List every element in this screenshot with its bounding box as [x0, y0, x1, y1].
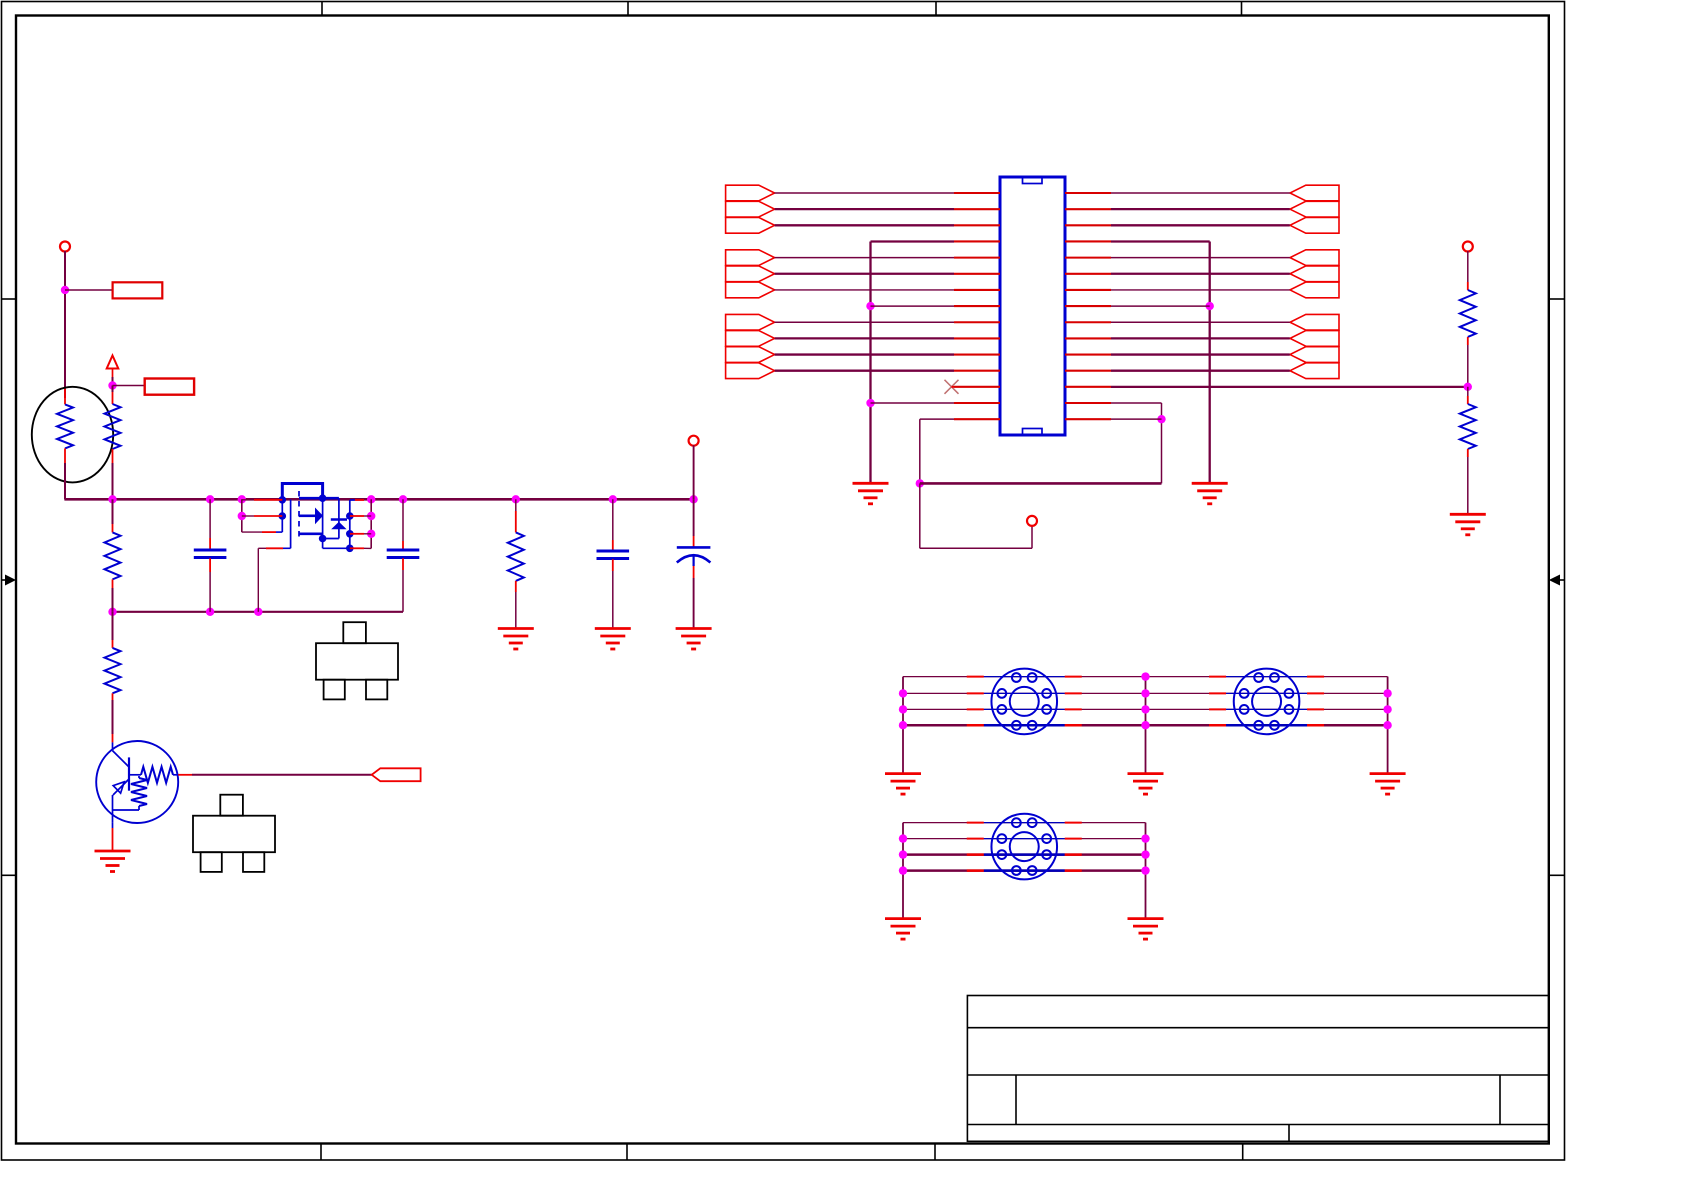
wire: [241, 499, 243, 532]
mosfet node: [279, 496, 287, 504]
Q1 pin: [355, 499, 364, 501]
wire: [903, 853, 1146, 856]
footprint SOT-23 U3: [316, 622, 398, 699]
R3 lead: [112, 640, 114, 648]
U1 right pin 28: [1065, 386, 1111, 388]
right connector flag row 3: [1290, 217, 1339, 233]
wire to ground: [902, 823, 904, 919]
lower bus junction: [206, 608, 214, 616]
ground: [1128, 919, 1164, 940]
R4 lead: [515, 581, 517, 592]
junction: [1383, 689, 1391, 697]
right connector flag row 2: [1290, 201, 1339, 217]
wire: [1111, 192, 1290, 194]
pin: [967, 838, 984, 840]
wire: [1111, 257, 1290, 259]
R2 lead: [112, 579, 114, 588]
right connector flag row 1: [1290, 185, 1339, 201]
terminal P2: [689, 436, 699, 446]
right connector flag row 5: [1290, 250, 1339, 266]
junction: [1141, 672, 1149, 680]
connector J circular footprint: [1234, 669, 1300, 735]
C2 lead: [402, 541, 404, 550]
left connector flag row 5: [726, 250, 775, 266]
bus junction: [206, 495, 214, 503]
wire: [242, 499, 254, 501]
wire: [903, 692, 1388, 694]
pin: [967, 724, 984, 727]
U1 right pin 18: [1065, 224, 1111, 226]
zone tick bottom: [934, 1144, 936, 1161]
right connector flag row 7: [1290, 282, 1339, 298]
pin: [1065, 676, 1082, 678]
right connector flag row 6: [1290, 266, 1339, 282]
wire blue segment: [984, 869, 1065, 872]
zone tick bottom: [1242, 1144, 1244, 1161]
pin: [1065, 822, 1082, 824]
zone tick top: [627, 2, 629, 16]
connector J circular footprint: [991, 669, 1057, 735]
Q2 collector inside: [112, 742, 114, 750]
wire: [1111, 370, 1290, 372]
left connector flag row 1: [726, 185, 775, 201]
wire: [775, 208, 954, 210]
U1 right pin 27: [1065, 370, 1111, 372]
junction: [1141, 705, 1149, 713]
wire row8 left: [871, 305, 955, 307]
wire: [903, 869, 1146, 872]
wire: [903, 822, 1146, 824]
pin: [1307, 692, 1324, 694]
wire: [1111, 321, 1290, 323]
wire: [903, 838, 1146, 840]
C4 lead: [693, 536, 695, 547]
wire row13 to divider: [1111, 386, 1468, 388]
left connector flag row 3: [726, 217, 775, 233]
R6 lead: [1467, 449, 1469, 457]
U1 right pin 24: [1065, 321, 1111, 323]
right edge zone arrow: [1556, 579, 1564, 581]
C2 lead: [402, 558, 404, 570]
R5 lead: [1467, 282, 1469, 290]
left connector flag row 7: [726, 282, 775, 298]
terminal P4: [1463, 242, 1473, 252]
U1 right pin 22: [1065, 289, 1111, 291]
junction: [61, 286, 69, 294]
wire: [775, 337, 954, 339]
U1 right pin 30: [1065, 418, 1111, 420]
mosfet node: [346, 512, 354, 520]
pin: [967, 708, 984, 710]
U1 left pin 13: [954, 386, 1000, 388]
U1 left pin 2: [954, 208, 1000, 210]
wire: [1161, 403, 1163, 483]
U1 left pin 4: [954, 240, 1000, 242]
resistor RT lead: [64, 388, 66, 404]
bus junction: [367, 495, 375, 503]
R1 lead: [112, 449, 114, 463]
left connector flag row 11: [726, 347, 775, 363]
wire: [402, 499, 404, 541]
wire to flag: [192, 774, 372, 776]
wire: [775, 289, 954, 291]
mosfet node: [319, 535, 327, 543]
left GND bus: [869, 241, 871, 483]
U1 left pin 10: [954, 337, 1000, 339]
U1 right pin 17: [1065, 208, 1111, 210]
junction: [238, 512, 246, 520]
wire: [903, 724, 1388, 727]
wire row15 right: [1111, 418, 1162, 420]
lower bus junction: [108, 608, 116, 616]
wire: [402, 570, 404, 612]
wire down to bus: [64, 463, 66, 499]
bus junction: [512, 495, 520, 503]
pin: [1065, 724, 1082, 727]
lower bus junction: [254, 608, 262, 616]
wire bottom loop: [920, 482, 1162, 485]
wire: [775, 321, 954, 323]
U1 left pin 15: [954, 418, 1000, 420]
Q1 gate pin: [266, 547, 283, 549]
C1 lead: [209, 538, 211, 550]
R3 lead: [112, 693, 114, 700]
connector flag CTRL: [372, 768, 421, 781]
ground: [853, 483, 889, 504]
left connector flag row 12: [726, 363, 775, 379]
thermistor body circle: [32, 387, 113, 483]
footprint SOT-23 U4: [193, 795, 275, 872]
R6 lead: [1467, 396, 1469, 404]
transistor Q2: [96, 741, 178, 823]
wire: [1467, 345, 1469, 387]
wire: [209, 572, 211, 612]
wire to ground: [1145, 823, 1147, 919]
left edge zone arrow: [2, 579, 10, 581]
wire blue segment: [1226, 708, 1307, 710]
wire blue segment: [984, 724, 1065, 727]
wire: [775, 273, 954, 275]
wire: [1111, 337, 1290, 339]
Q2 base resistor zigzag: [141, 767, 173, 783]
zone tick left: [2, 298, 17, 300]
junction: [1157, 415, 1165, 423]
U1 right pin 26: [1065, 353, 1111, 355]
wire: [775, 353, 954, 355]
wire: [515, 499, 517, 511]
resistor R3 zigzag: [105, 648, 121, 693]
wire: [612, 499, 614, 540]
U1 left pin 5: [954, 257, 1000, 259]
junction: [1464, 383, 1472, 391]
wire row15 left: [920, 418, 954, 420]
Q1 pin: [350, 533, 364, 535]
zone tick left: [2, 874, 17, 876]
wire blue segment: [984, 676, 1065, 678]
pin: [1065, 692, 1082, 694]
pin: [967, 822, 984, 824]
left connector flag row 6: [726, 266, 775, 282]
net label box NL1: [113, 282, 163, 298]
U1 left pin 9: [954, 321, 1000, 323]
wire row14 left: [871, 402, 955, 404]
capacitor C4 polarized: [677, 546, 711, 549]
resistor R1 zigzag: [105, 404, 121, 449]
terminal P1: [60, 242, 70, 252]
wire: [1111, 208, 1290, 210]
wire: [775, 370, 954, 372]
pin: [967, 692, 984, 694]
wire to bus: [112, 463, 114, 499]
mosfet node: [346, 545, 354, 553]
pin: [1307, 676, 1324, 678]
U1 left pin 7: [954, 289, 1000, 291]
Q2 emitter pin: [112, 828, 114, 851]
ground: [885, 919, 921, 940]
resistor RT lead: [64, 448, 66, 466]
U1 left pin 11: [954, 353, 1000, 355]
R1 lead: [112, 392, 114, 404]
U1 right pin 29: [1065, 402, 1111, 404]
wire to ground: [1387, 677, 1389, 774]
wire: [920, 547, 1032, 549]
thermistor RT zigzag: [57, 404, 73, 448]
capacitor C3: [597, 551, 630, 559]
wire to label: [113, 385, 145, 387]
wire: [112, 700, 114, 734]
ground: [1192, 483, 1228, 504]
power stem: [112, 368, 114, 377]
junction: [1141, 850, 1149, 858]
junction: [1141, 866, 1149, 874]
bus junction: [238, 495, 246, 503]
left connector flag row 10: [726, 331, 775, 347]
ground: [1450, 514, 1486, 535]
ground: [95, 851, 131, 872]
pin: [1307, 724, 1324, 727]
junction: [367, 530, 375, 538]
junction: [899, 705, 907, 713]
left connector flag row 9: [726, 314, 775, 330]
wire to ground: [902, 677, 904, 774]
pin: [967, 853, 984, 856]
ground: [676, 629, 712, 650]
wire: [1111, 289, 1290, 291]
C1 lead: [209, 558, 211, 572]
terminal P3: [1027, 516, 1037, 526]
mosfet node: [346, 530, 354, 538]
Q1 pin: [350, 515, 364, 517]
junction: [899, 850, 907, 858]
lower bus: [113, 611, 404, 613]
wire: [1111, 224, 1290, 226]
U1 left pin 12: [954, 370, 1000, 372]
wire blue segment: [984, 853, 1065, 856]
bus junction: [689, 495, 697, 503]
resistor R4 zigzag: [508, 532, 524, 581]
wire: [775, 257, 954, 259]
junction: [899, 721, 907, 729]
zone tick top: [935, 2, 937, 16]
wire: [64, 294, 66, 398]
right connector flag row 11: [1290, 347, 1339, 363]
junction: [367, 512, 375, 520]
pin: [1209, 724, 1226, 727]
pin: [967, 676, 984, 678]
zone tick right: [1549, 874, 1565, 876]
junction: [899, 866, 907, 874]
junction: [1383, 721, 1391, 729]
Q1 pin: [254, 515, 282, 517]
mosfet Q1: [282, 484, 355, 549]
junction: [1383, 705, 1391, 713]
U1 left pin 3: [954, 224, 1000, 226]
right connector flag row 10: [1290, 331, 1339, 347]
wire gate to lower bus: [257, 548, 259, 612]
resistor R6 zigzag: [1460, 404, 1476, 449]
ground: [498, 629, 534, 650]
wire to label: [65, 289, 113, 291]
power port arrow VCC: [107, 356, 119, 369]
U1 right pin 23: [1065, 305, 1111, 307]
wire: [258, 547, 266, 549]
wire blue segment: [1226, 692, 1307, 694]
wire: [919, 419, 921, 483]
R2 lead: [112, 524, 114, 532]
zone tick bottom: [626, 1144, 628, 1161]
wire: [112, 612, 114, 640]
U1 right pin 20: [1065, 257, 1111, 259]
capacitor C2: [387, 550, 420, 558]
wire: [209, 499, 211, 538]
capacitor C1: [194, 550, 227, 558]
transistor collector pin: [112, 734, 114, 742]
connector J circular footprint: [991, 814, 1057, 880]
wire: [903, 676, 1388, 678]
wire: [612, 571, 614, 629]
pin: [1065, 708, 1082, 710]
gate wire: [283, 547, 291, 549]
zone tick right: [1549, 298, 1565, 300]
wire blue segment: [984, 822, 1065, 824]
junction: [866, 302, 874, 310]
pin: [1209, 676, 1226, 678]
wire row8 right: [1111, 305, 1210, 307]
wire: [112, 499, 114, 524]
U1 left pin 1: [954, 192, 1000, 194]
zone tick top: [321, 2, 323, 16]
ground: [1370, 774, 1406, 795]
wire: [112, 377, 114, 386]
junction: [1141, 834, 1149, 842]
wire: [242, 531, 262, 533]
bus junction: [399, 495, 407, 503]
wire row4 left: [871, 240, 955, 242]
junction: [916, 479, 924, 487]
bus junction: [609, 495, 617, 503]
pin: [1065, 853, 1082, 856]
pin: [1209, 708, 1226, 710]
U1 right pin 21: [1065, 273, 1111, 275]
pin: [1209, 692, 1226, 694]
Q2 base-emitter resistor zigzag: [131, 778, 147, 806]
junction: [1141, 721, 1149, 729]
wire: [1467, 251, 1469, 282]
wire: [903, 708, 1388, 710]
right connector flag row 9: [1290, 314, 1339, 330]
junction: [899, 689, 907, 697]
wire: [775, 192, 954, 194]
junction: [108, 381, 116, 389]
wire blue segment: [984, 708, 1065, 710]
IC U1 body: [1000, 177, 1065, 435]
wire: [242, 515, 254, 517]
ground: [1128, 774, 1164, 795]
U1 left pin 8: [954, 305, 1000, 307]
C3 lead: [612, 540, 614, 551]
Q1 pin: [262, 531, 276, 533]
wire: [1111, 273, 1290, 275]
U1 left pin 14: [954, 402, 1000, 404]
pin: [1065, 838, 1082, 840]
zone tick top: [1241, 2, 1243, 16]
pin: [1065, 869, 1082, 872]
wire: [515, 592, 517, 629]
U1 right pin 25: [1065, 337, 1111, 339]
Q2 base pin: [178, 774, 192, 776]
no-connect X pin 13: [945, 380, 959, 394]
ground: [885, 774, 921, 795]
wire: [693, 499, 695, 536]
wire row14 right: [1111, 402, 1162, 404]
net label box NL2: [145, 379, 194, 395]
resistor R5 zigzag: [1460, 290, 1476, 337]
U1 right pin 16: [1065, 192, 1111, 194]
wire: [693, 578, 695, 629]
pin: [1307, 708, 1324, 710]
wire: [775, 224, 954, 226]
title block: [967, 996, 1548, 1142]
U1 left pin 6: [954, 273, 1000, 275]
wire: [112, 588, 114, 612]
wire: [693, 445, 695, 499]
mosfet node: [319, 494, 327, 502]
junction: [866, 399, 874, 407]
Q2 emitter: [112, 823, 114, 828]
junction: [1206, 302, 1214, 310]
wire: [1111, 353, 1290, 355]
wire blue segment: [1226, 724, 1307, 727]
wire: [64, 251, 66, 290]
wire blue segment: [984, 838, 1065, 840]
right GND bus: [1209, 241, 1211, 483]
mosfet node: [279, 512, 287, 520]
wire: [1031, 525, 1033, 548]
Q1 pin: [254, 499, 282, 501]
wire: [112, 386, 114, 393]
wire: [919, 483, 921, 548]
junction: [899, 834, 907, 842]
ground: [595, 629, 631, 650]
wire: [1467, 457, 1469, 514]
left connector flag row 2: [726, 201, 775, 217]
wire to ground: [1145, 677, 1147, 774]
junction: [1141, 689, 1149, 697]
bus junction: [108, 495, 116, 503]
C4 lead: [693, 566, 695, 578]
wire row4 right: [1111, 240, 1210, 242]
U1 right pin 19: [1065, 240, 1111, 242]
